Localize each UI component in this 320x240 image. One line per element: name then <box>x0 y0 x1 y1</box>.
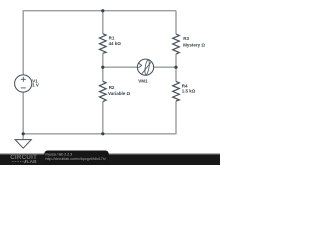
svg-text:1 V: 1 V <box>32 83 39 88</box>
svg-text:1.5 kΩ: 1.5 kΩ <box>182 88 196 93</box>
svg-text:R1: R1 <box>109 36 115 41</box>
svg-text:R3: R3 <box>183 36 189 41</box>
svg-text:http://circuitlab.com/c/kpcgv6: http://circuitlab.com/c/kpcgv6h6x17h/ <box>45 157 106 161</box>
svg-text:VM1: VM1 <box>138 78 148 83</box>
svg-text:Variable Ω: Variable Ω <box>108 91 131 96</box>
svg-text:R2: R2 <box>109 85 115 90</box>
svg-text:44 kΩ: 44 kΩ <box>109 41 122 46</box>
svg-text:Mystery Ω: Mystery Ω <box>183 43 205 48</box>
svg-text:myusa / lab 2.2.3: myusa / lab 2.2.3 <box>45 153 72 157</box>
svg-text:LAB: LAB <box>27 159 37 165</box>
